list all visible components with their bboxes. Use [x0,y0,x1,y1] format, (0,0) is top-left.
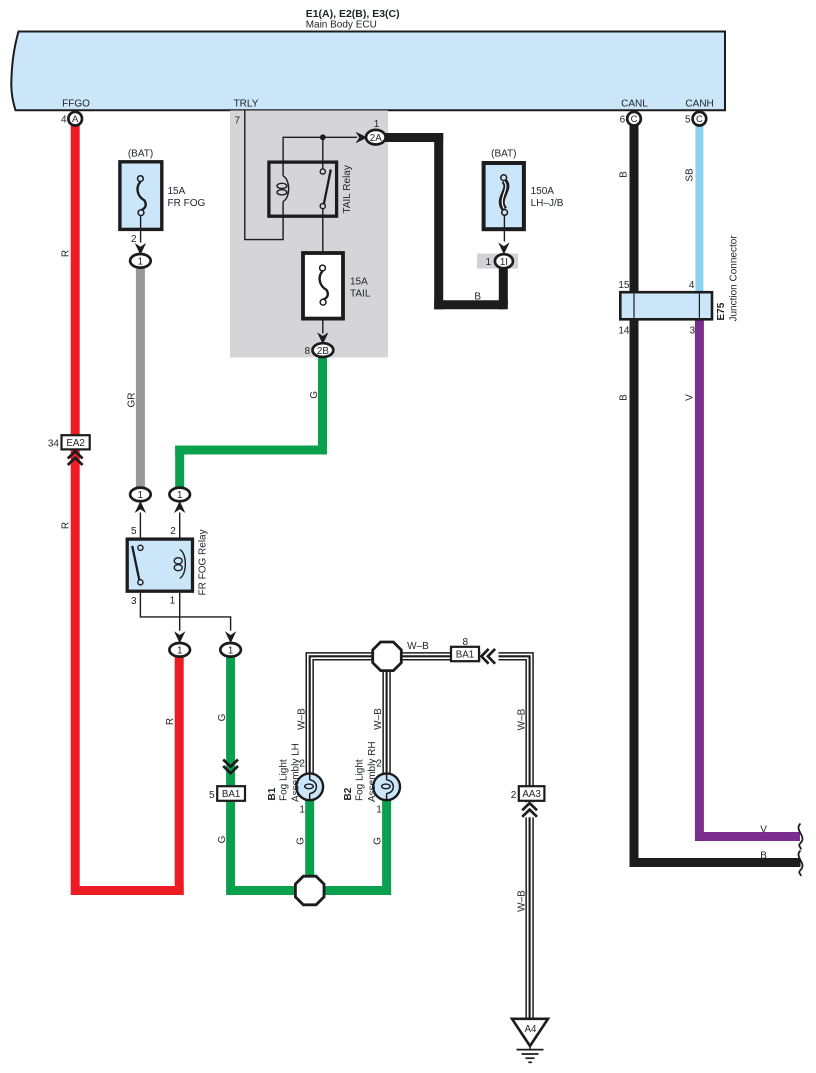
svg-text:B: B [619,171,630,178]
svg-text:B: B [619,394,630,401]
connector EA2 on red wire [62,435,90,449]
lamp B1 Fog Light Assembly LH [296,773,323,800]
svg-text:1: 1 [374,119,380,130]
connector AA3 on W-B [519,786,545,801]
connector circle C at CANL [627,112,641,126]
svg-text:B2: B2 [343,787,354,800]
svg-text:14: 14 [618,325,630,336]
wire G green 2B to relay pin2 oval [175,355,327,489]
arrow down into oval (pin1 red out) [174,631,185,643]
TAIL relay switch [320,169,325,174]
coil [180,550,186,579]
svg-text:34: 34 [48,438,60,449]
svg-text:1: 1 [299,804,305,815]
relay TAIL Relay box [269,162,337,216]
gray highlight behind 1I [477,254,518,269]
svg-text:1: 1 [485,257,491,268]
svg-text:7: 7 [234,115,240,126]
lamp B2 Fog Light Assembly RH [373,773,400,800]
svg-text:BA1: BA1 [222,789,241,800]
svg-text:SB: SB [684,168,695,182]
svg-text:CANH: CANH [685,99,713,110]
connector oval 2B [313,343,334,357]
switch [138,545,143,550]
wire W-B from B1 up to junction [310,656,388,774]
svg-text:E1(A), E2(B), E3(C): E1(A), E2(B), E3(C) [306,8,400,20]
svg-text:3: 3 [689,325,695,336]
wire W-B AA3 down to ground A4 [525,800,533,1019]
connector oval 2A [366,130,386,145]
svg-text:R: R [61,250,72,257]
connector BA1 (8) on W-B [451,647,479,661]
arrow up into oval (pin2 green) [174,501,185,513]
ECU band: Main Body ECU [11,32,725,111]
svg-text:G: G [217,835,228,843]
svg-text:G: G [309,391,320,399]
svg-text:AA3: AA3 [522,789,541,800]
svg-text:E75: E75 [716,302,727,320]
chevrons down on green + BA1 (5) [223,760,238,774]
svg-text:2: 2 [170,526,176,537]
relay box [127,539,192,591]
svg-text:FFGO: FFGO [62,99,90,110]
chevrons up below EA2 [68,451,83,465]
wire TRLY thin net (pin7 down, right, up to coil) [245,111,357,240]
arrow up into oval (pin5 gray) [135,501,146,513]
svg-text:C: C [631,114,638,125]
svg-text:B: B [760,851,767,862]
arrow into 2B [317,332,328,344]
svg-text:W–B: W–B [517,890,528,912]
svg-text:V: V [760,825,767,836]
svg-text:B1: B1 [267,787,278,800]
svg-text:8: 8 [304,346,310,357]
svg-text:TAIL Relay: TAIL Relay [342,165,353,213]
svg-text:G: G [373,837,384,845]
svg-text:LH–J/B: LH–J/B [531,198,564,209]
svg-text:5: 5 [209,790,215,801]
fuse 15A TAIL box [303,253,343,319]
svg-text:G: G [217,713,228,721]
svg-text:4: 4 [689,280,695,291]
connector oval 1 (green in) [169,488,190,502]
svg-text:1: 1 [177,646,182,657]
svg-text:1I: 1I [500,257,508,268]
svg-text:W–B: W–B [407,641,429,652]
node octagon junction top (W-B) [373,642,402,671]
svg-text:15: 15 [618,280,630,291]
fuse 15A FR FOG box [120,162,162,230]
connector oval 1 (green out) [220,643,241,657]
svg-text:1: 1 [177,490,182,501]
connector oval 1I [495,254,513,268]
wire switch vertical segments [322,137,324,333]
break squiggle V wire [798,824,802,850]
wire W-B junction right then down to AA3 [386,656,530,787]
svg-text:150A: 150A [531,186,555,197]
svg-text:FR FOG: FR FOG [168,198,206,209]
pin lines [140,513,230,631]
chevrons up below AA3 [522,802,539,817]
svg-text:15A: 15A [350,277,368,288]
junction connector E75 [620,292,712,319]
connector oval 1 (red out) [169,643,190,657]
svg-text:1: 1 [138,257,143,268]
arrow into 2A [356,132,368,143]
wire G green B1 bulb to junction to B2 bulb [310,797,387,891]
svg-text:Assembly RH: Assembly RH [367,741,378,802]
chevrons left on W-B [481,648,499,665]
connector oval 1 (fuse out) [130,254,151,268]
svg-text:R: R [61,522,72,529]
svg-text:W–B: W–B [517,708,528,730]
svg-text:B: B [474,292,481,303]
svg-text:CANL: CANL [621,99,648,110]
svg-text:C: C [696,114,703,125]
svg-text:Fog Light: Fog Light [355,759,366,801]
break squiggle B wire [798,851,802,877]
wire G green relay pin3 output to bottom junction [231,655,310,891]
svg-text:R: R [165,718,176,725]
arrow into oval 1 [135,243,146,255]
svg-text:EA2: EA2 [66,438,85,449]
svg-text:(BAT): (BAT) [491,149,516,160]
svg-text:2: 2 [511,790,517,801]
wire W-B from B2 up to junction [382,654,390,775]
svg-text:V: V [684,394,695,401]
svg-text:(BAT): (BAT) [128,149,153,160]
svg-text:6: 6 [620,115,626,126]
svg-text:TAIL: TAIL [350,289,371,300]
wire GR gray fuse to relay oval [136,266,145,489]
svg-text:W–B: W–B [296,708,307,730]
svg-text:4: 4 [61,115,67,126]
svg-text:2B: 2B [317,346,329,357]
svg-text:TRLY: TRLY [234,99,259,110]
svg-text:1: 1 [376,804,382,815]
svg-text:A: A [72,114,79,125]
svg-text:3: 3 [131,596,137,607]
svg-text:5: 5 [685,115,691,126]
node junction dot [320,134,326,140]
connector circle C at CANH [693,112,707,126]
connector BA1 (5) [217,786,245,801]
ground A4 [512,1019,548,1046]
svg-text:15A: 15A [168,186,186,197]
svg-text:G: G [296,837,307,845]
svg-text:2A: 2A [370,133,382,144]
node octagon junction bottom (green) [295,876,324,905]
svg-text:GR: GR [127,393,138,408]
svg-text:1: 1 [138,490,143,501]
svg-text:BA1: BA1 [456,650,475,661]
arrow down into oval (pin3 green out) [225,631,236,643]
svg-text:1: 1 [228,646,233,657]
wire B black CANL down and right [634,122,801,863]
svg-text:W–B: W–B [373,708,384,730]
TAIL relay coil [283,176,289,202]
svg-text:1: 1 [170,596,176,607]
gray relay panel [230,111,388,358]
svg-text:5: 5 [131,526,137,537]
connector oval 1 (gray in) [130,488,151,502]
svg-text:Main Body ECU: Main Body ECU [306,20,377,31]
svg-text:A4: A4 [525,1024,538,1035]
svg-text:2: 2 [131,234,137,245]
fusible link 150A LH-J/B box [484,163,524,229]
svg-text:Fog Light: Fog Light [279,759,290,801]
svg-text:FR FOG Relay: FR FOG Relay [197,529,208,595]
svg-text:Junction Connector: Junction Connector [729,235,740,322]
wire V purple E75 down and right [699,317,800,837]
arrow into 1I [498,242,509,254]
svg-text:Assembly LH: Assembly LH [291,743,302,802]
wire SB light blue CANH to E75 [695,122,703,294]
connector circle A at FFGO [68,112,82,126]
wire B black 2A to 1I [383,133,503,305]
svg-text:8: 8 [463,637,469,648]
wire R red main FFGO to relay pin1 oval [75,122,179,895]
